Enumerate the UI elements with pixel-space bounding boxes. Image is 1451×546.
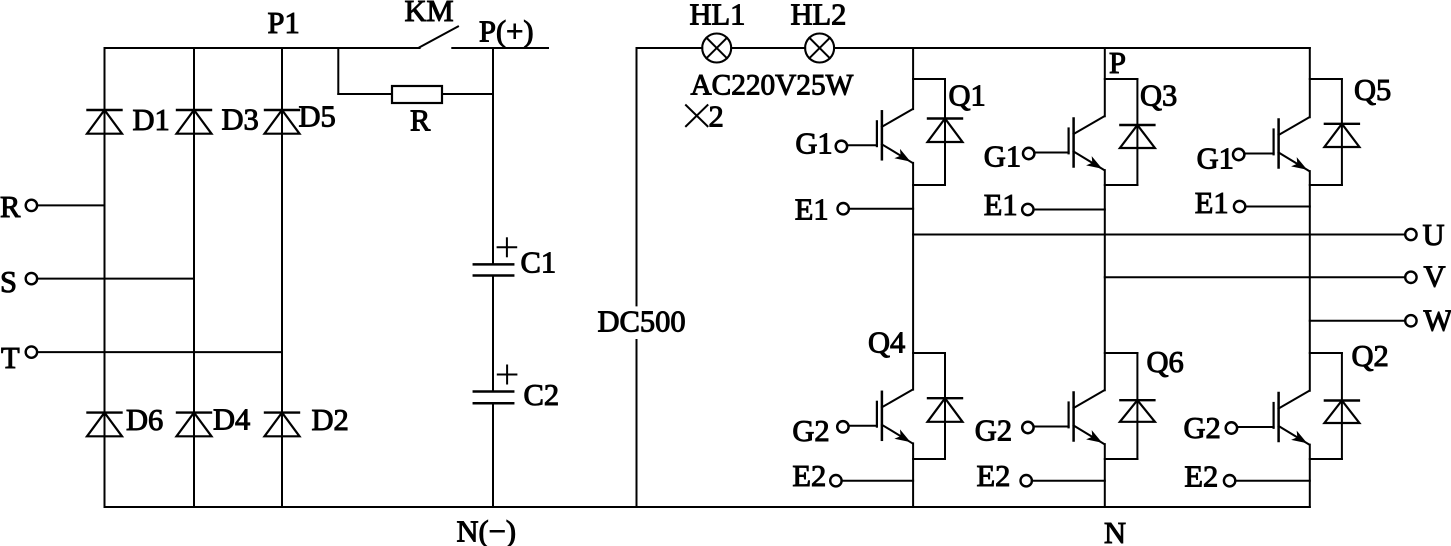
svg-text:C1: C1 [521, 246, 557, 280]
label T input [1, 341, 20, 375]
label D3 [222, 102, 259, 136]
wire E2 (Q6) [1032, 480, 1105, 482]
svg-text:E2: E2 [792, 459, 826, 493]
label HL1 [690, 0, 746, 32]
svg-text:D4: D4 [213, 403, 250, 437]
diode D6 [87, 413, 122, 437]
svg-text:C2: C2 [524, 378, 560, 412]
label G2 (Q6) [975, 414, 1012, 448]
wire input R [37, 204, 104, 206]
label D2 [312, 403, 349, 437]
wire lower diode branch top (leg 3) [1310, 352, 1342, 354]
terminal E1 (Q5) [1234, 201, 1245, 212]
wire leg upper segment (leg 1) [912, 48, 914, 109]
label x2 quantity [686, 100, 724, 134]
svg-text:2: 2 [709, 100, 724, 134]
wire resistor branch drop [337, 48, 339, 94]
wire lower diode vertical (leg 3) [1341, 353, 1343, 459]
wire leg upper segment (leg 3) [1309, 48, 1311, 117]
terminal V [1405, 272, 1416, 283]
wire upper diode branch top (leg 3) [1310, 78, 1342, 80]
svg-text:DC500: DC500 [598, 304, 686, 338]
label V [1424, 260, 1446, 294]
label G1 (Q1) [795, 126, 832, 160]
freewheel diode of Q1 [928, 119, 963, 143]
svg-text:G1: G1 [795, 126, 832, 160]
svg-text:KM: KM [405, 0, 454, 28]
label C1 [521, 246, 557, 280]
svg-text:P: P [1109, 46, 1126, 80]
label G1 (Q5) [1197, 141, 1234, 175]
label node N(-) [457, 515, 517, 546]
diode D4 [177, 413, 212, 437]
terminal E1 (Q3) [1022, 204, 1033, 215]
wire upper diode vertical (leg 1) [944, 79, 946, 185]
wire resistor branch left [338, 93, 392, 95]
freewheel diode of Q2 [1324, 401, 1359, 424]
svg-text:Q3: Q3 [1140, 79, 1177, 113]
diode D1 [87, 110, 122, 134]
svg-text:Q4: Q4 [868, 326, 905, 360]
label E1 (Q5) [1195, 186, 1229, 220]
wire leg lower segment (leg 1) [912, 443, 914, 507]
wire DC bus vertical lower [636, 340, 638, 507]
label Q1 [949, 79, 986, 113]
label U [1423, 218, 1445, 252]
label E1 (Q3) [984, 188, 1018, 222]
label AC220V25W [691, 70, 854, 102]
label S input [0, 265, 17, 299]
label W [1424, 304, 1451, 338]
svg-text:R: R [410, 104, 431, 138]
svg-text:HL1: HL1 [690, 0, 746, 32]
wire rectifier string 3 vertical (D5/D2) [281, 48, 283, 507]
svg-text:E1: E1 [1195, 186, 1229, 220]
svg-text:S: S [0, 265, 17, 299]
freewheel diode of Q6 [1120, 400, 1155, 422]
resistor R [392, 86, 442, 103]
terminal S [26, 273, 37, 284]
wire E1 (Q5) [1245, 206, 1310, 208]
label D6 [126, 403, 163, 437]
svg-text:D6: D6 [126, 403, 163, 437]
label Q2 [1352, 339, 1389, 373]
wire upper diode vertical (leg 2) [1136, 79, 1138, 185]
wire leg lower segment (leg 3) [1309, 445, 1311, 507]
svg-text:G1: G1 [1197, 141, 1234, 175]
svg-text:HL2: HL2 [791, 0, 847, 32]
lamp HL1 [702, 34, 731, 63]
label D1 [133, 103, 170, 137]
wire cap string middle [492, 276, 494, 392]
label E2 (Q2) [1184, 460, 1218, 494]
wire E1 (Q1) [849, 208, 913, 210]
wire E2 (Q2) [1235, 480, 1310, 482]
lamp HL2 [805, 34, 834, 63]
label R input [0, 190, 21, 224]
wire leg middle segment (leg 3) [1309, 171, 1311, 391]
svg-text:P1: P1 [268, 6, 300, 40]
wire top bus to P corner [834, 47, 1310, 49]
label Q5 [1354, 73, 1391, 107]
svg-text:U: U [1423, 218, 1445, 252]
switch KM blade [420, 27, 458, 48]
freewheel diode of Q3 [1120, 125, 1155, 148]
wire resistor branch right [442, 93, 493, 95]
terminal E2 (Q4) [830, 475, 841, 486]
wire input T [37, 351, 282, 353]
diode D2 [265, 413, 300, 437]
wire lower diode branch bottom (leg 3) [1310, 458, 1342, 460]
wire rectifier string 2 vertical (D3/D4) [193, 48, 195, 507]
wire lower diode branch bottom (leg 2) [1105, 458, 1138, 460]
svg-text:AC220V25W: AC220V25W [691, 70, 854, 102]
C2 polarity + [498, 366, 517, 384]
svg-text:N(−): N(−) [457, 515, 517, 546]
capacitor C2 [474, 392, 513, 404]
terminal E2 (Q2) [1224, 475, 1235, 486]
svg-text:D3: D3 [222, 102, 259, 136]
label KM [405, 0, 454, 28]
label G2 (Q2) [1184, 411, 1221, 445]
IGBT Q1 [836, 109, 913, 163]
wire leg middle segment (leg 2) [1104, 170, 1106, 390]
svg-text:G2: G2 [975, 414, 1012, 448]
svg-text:E1: E1 [984, 188, 1018, 222]
freewheel diode of Q4 [928, 398, 963, 422]
wire top bus P1 (left section) [105, 47, 420, 49]
svg-text:D2: D2 [312, 403, 349, 437]
label Q3 [1140, 79, 1177, 113]
label node P(+) [479, 15, 533, 49]
wire top bus to HL1 [637, 47, 703, 49]
svg-text:V: V [1424, 260, 1446, 294]
wire output W [1310, 320, 1406, 322]
wire input S [37, 278, 194, 280]
label node P [1109, 46, 1126, 80]
svg-text:D1: D1 [133, 103, 170, 137]
svg-text:G2: G2 [1184, 411, 1221, 445]
wire bottom bus N(-) [105, 506, 1310, 508]
wire upper diode branch bottom (leg 2) [1105, 184, 1138, 186]
wire leg lower segment (leg 2) [1104, 444, 1106, 507]
wire upper diode branch top (leg 2) [1105, 78, 1138, 80]
svg-text:Q6: Q6 [1147, 345, 1184, 379]
svg-text:D5: D5 [299, 99, 336, 133]
wire upper diode branch bottom (leg 1) [913, 184, 945, 186]
terminal T [26, 346, 37, 357]
wire cap string upper [492, 48, 494, 264]
wire lower diode vertical (leg 1) [944, 353, 946, 459]
IGBT Q3 [1023, 116, 1104, 170]
svg-text:E1: E1 [795, 192, 829, 226]
svg-text:E2: E2 [977, 459, 1011, 493]
IGBT Q5 [1233, 117, 1309, 171]
wire DC bus vertical upper [636, 48, 638, 305]
wire top bus from KM to P(+) [452, 47, 548, 49]
svg-text:Q2: Q2 [1352, 339, 1389, 373]
wire leg middle segment (leg 1) [912, 163, 914, 390]
label Q6 [1147, 345, 1184, 379]
wire E2 (Q4) [842, 480, 914, 482]
terminal W [1405, 315, 1416, 326]
wire upper diode branch top (leg 1) [913, 78, 945, 80]
terminal R [26, 200, 37, 211]
svg-text:G2: G2 [792, 414, 829, 448]
IGBT Q6 [1022, 390, 1104, 444]
wire lower diode vertical (leg 2) [1136, 353, 1138, 459]
label HL2 [791, 0, 847, 32]
label G2 (Q4) [792, 414, 829, 448]
terminal E1 (Q1) [838, 203, 849, 214]
wire HL1 to HL2 [731, 47, 805, 49]
wire upper diode branch bottom (leg 3) [1310, 184, 1342, 186]
wire cap string lower [492, 403, 494, 507]
svg-text:N: N [1104, 516, 1126, 546]
freewheel diode of Q5 [1324, 124, 1359, 147]
label E2 (Q6) [977, 459, 1011, 493]
wire upper diode vertical (leg 3) [1341, 79, 1343, 185]
label E1 (Q1) [795, 192, 829, 226]
IGBT Q2 [1226, 391, 1310, 445]
label D4 [213, 403, 250, 437]
wire rectifier string 1 vertical (D1/D6) [104, 48, 106, 507]
svg-text:W: W [1424, 304, 1451, 338]
diode D3 [177, 110, 212, 134]
diode D5 [265, 110, 300, 134]
label R resistor [410, 104, 431, 138]
label C2 [524, 378, 560, 412]
svg-text:R: R [0, 190, 21, 224]
terminal U [1405, 229, 1416, 240]
svg-text:Q1: Q1 [949, 79, 986, 113]
wire lower diode branch top (leg 2) [1105, 352, 1138, 354]
terminal E2 (Q6) [1020, 475, 1031, 486]
svg-text:P(+): P(+) [479, 15, 533, 49]
svg-text:G1: G1 [984, 139, 1021, 173]
IGBT Q4 [837, 390, 912, 444]
wire output V [1105, 276, 1406, 278]
label DC500 [598, 304, 686, 338]
svg-text:E2: E2 [1184, 460, 1218, 494]
svg-text:Q5: Q5 [1354, 73, 1391, 107]
wire E1 (Q3) [1034, 209, 1105, 211]
label node P1 [268, 6, 300, 40]
svg-text:T: T [1, 341, 20, 375]
wire leg upper segment (leg 2) [1104, 48, 1106, 116]
wire lower diode branch bottom (leg 1) [913, 458, 945, 460]
C1 polarity + [498, 238, 517, 256]
capacitor C1 [474, 264, 513, 275]
label E2 (Q4) [792, 459, 826, 493]
wire lower diode branch top (leg 1) [913, 352, 945, 354]
label G1 (Q3) [984, 139, 1021, 173]
wire output U [913, 234, 1405, 236]
label node N [1104, 516, 1126, 546]
label D5 [299, 99, 336, 133]
label Q4 [868, 326, 905, 360]
